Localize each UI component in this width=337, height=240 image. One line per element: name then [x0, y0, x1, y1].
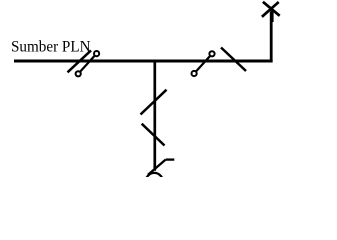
switch S1 upper terminal circle — [94, 51, 99, 56]
wire: horizontal bus from source to right corner — [14, 60, 273, 63]
switch S1 lower terminal circle — [76, 71, 81, 76]
switch S1 slash mark — [68, 50, 92, 72]
bottom switch blade — [148, 160, 166, 175]
switch S2 upper terminal circle — [209, 51, 214, 56]
switch S1 blade — [80, 56, 94, 71]
switch S2 slash mark — [221, 48, 246, 72]
load circle (cut off at bottom edge) — [146, 173, 163, 190]
load marker X — [262, 2, 280, 17]
breaker slash mark 1 on feeder — [141, 90, 167, 115]
wire: vertical feeder drop from bus tee — [153, 60, 156, 171]
svg-text:Sumber PLN: Sumber PLN — [11, 38, 91, 55]
breaker slash mark 2 on feeder — [142, 124, 165, 146]
wire: riser stem below X — [270, 11, 273, 23]
switch S2 lower terminal circle — [192, 71, 197, 76]
wire: vertical riser up to load X — [270, 12, 273, 62]
bottom switch handle tick — [166, 158, 175, 160]
switch S2 blade — [196, 56, 210, 71]
